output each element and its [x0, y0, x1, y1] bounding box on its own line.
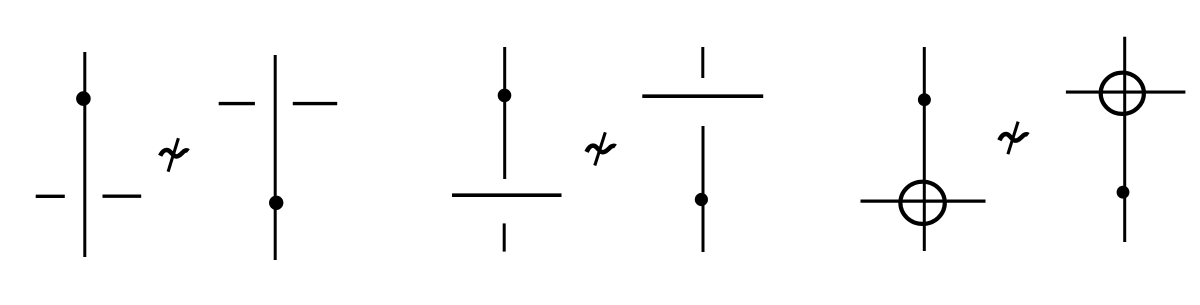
- not-equivalent sign (pair 2): [587, 132, 616, 165]
- wire: vertical conductor (pair 3, left diagram): [923, 47, 926, 251]
- wire: horizontal conductor (pair 2, right diagram): [642, 94, 763, 98]
- wire: horizontal conductor (pair 3, right diagram): [1066, 91, 1186, 94]
- crossover circle at wire crossing (pair 3, left diagram): [900, 182, 944, 224]
- wire: broken horizontal conductor, left segment (pair 1, left diagram): [36, 195, 65, 198]
- junction dot on vertical wire (pair 3, right diagram): [1117, 186, 1130, 199]
- junction dot on vertical wire (pair 2, left diagram): [498, 89, 512, 103]
- junction dot on vertical wire (pair 1, right diagram): [269, 196, 283, 210]
- junction dot on vertical wire (pair 1, left diagram): [76, 91, 91, 106]
- wire: vertical conductor (pair 1, left diagram): [83, 52, 86, 257]
- crossover circle at wire crossing (pair 3, right diagram): [1101, 73, 1144, 114]
- wire: vertical conductor (pair 3, right diagram): [1123, 37, 1126, 242]
- wire: vertical lower stub (pair 2, left diagram): [503, 223, 506, 251]
- wire: vertical upper segment (pair 2, left diagram): [503, 47, 506, 179]
- wire: vertical conductor (pair 1, right diagram): [274, 55, 277, 260]
- wire: broken horizontal conductor, right segment (pair 1, right diagram): [293, 102, 337, 105]
- junction dot on vertical wire (pair 2, right diagram): [695, 193, 708, 206]
- wire: horizontal conductor (pair 2, left diagram): [452, 193, 562, 197]
- junction dot on vertical wire (pair 3, left diagram): [918, 93, 931, 106]
- wire: horizontal conductor (pair 3, left diagram): [861, 200, 986, 203]
- wire: broken horizontal conductor, left segment (pair 1, right diagram): [219, 102, 255, 105]
- wire: broken horizontal conductor, right segment (pair 1, left diagram): [103, 194, 142, 197]
- wire: vertical lower segment (pair 2, right diagram): [702, 126, 705, 252]
- wire: vertical upper stub (pair 2, right diagram): [701, 47, 704, 78]
- not-equivalent sign (pair 1): [160, 138, 188, 172]
- not-equivalent sign (pair 3): [999, 122, 1028, 155]
